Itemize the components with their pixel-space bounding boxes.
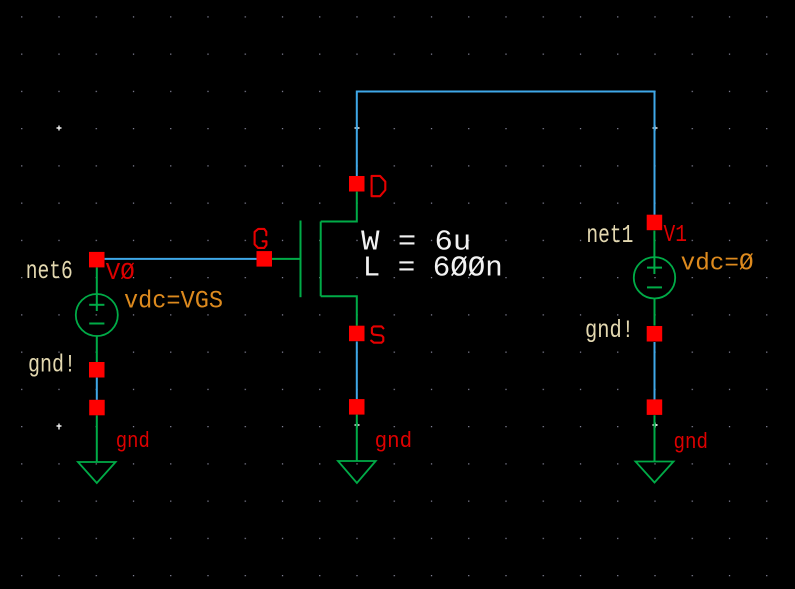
svg-text:gnd: gnd [674,430,709,455]
svg-text:gnd!: gnd! [28,351,76,380]
svg-text:gnd: gnd [375,429,413,454]
svg-text:VØ: VØ [106,260,135,287]
pin square V1 plus [647,215,663,231]
wire net6 to gate G [105,258,257,260]
svg-text:vdc=VGS: vdc=VGS [124,286,223,315]
pin square right gnd [647,399,663,415]
svg-text:L = 6ØØn: L = 6ØØn [363,251,503,284]
pin square V0 minus [89,362,105,378]
svg-text:net6: net6 [26,256,73,286]
svg-text:vdc=Ø: vdc=Ø [681,251,754,278]
pin square left gnd [89,400,105,416]
nmos transistor [272,192,357,326]
pin square G [257,251,273,267]
svg-text:net1: net1 [586,220,633,250]
pin square D [349,176,365,192]
vdc source V1 [634,231,675,326]
vdc source V0 [76,268,118,363]
ground symbol middle [338,415,376,483]
ground symbol left [78,415,116,483]
svg-text:gnd: gnd [116,429,150,454]
pin label G [255,229,267,248]
major grid cross (655,426) [653,423,658,428]
pin square net6 [89,252,105,268]
pin square middle gnd [349,399,365,415]
ground symbol right [636,415,674,482]
wire source to middle gnd [356,342,358,400]
pin square right gnd! [647,326,663,342]
wire drain to V1 top rail [357,92,655,215]
wire V1 minus to right gnd [654,342,656,400]
pin square S [349,326,365,342]
pin label D [372,176,386,196]
pin label S [371,326,383,342]
wire V0 minus to left gnd [96,378,98,400]
svg-text:gnd!: gnd! [585,316,634,345]
svg-text:V1: V1 [664,222,688,249]
